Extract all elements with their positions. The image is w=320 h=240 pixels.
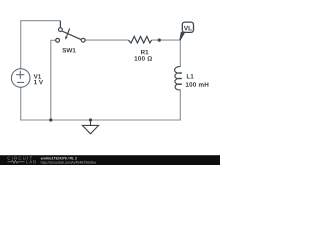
ground <box>82 120 98 134</box>
label 1 V <box>34 80 43 84</box>
wire: V1 top up left side <box>21 21 61 69</box>
wire: inductor bottom to bottom rail <box>179 90 181 120</box>
label V1 <box>34 74 41 78</box>
wire: resistor to right corner <box>152 39 181 41</box>
watermark text line 2 <box>41 161 96 164</box>
wire: bottom rail <box>20 119 181 121</box>
switch arrow head <box>65 37 68 40</box>
inductor L1 <box>175 67 182 90</box>
voltage source V1 <box>11 69 30 88</box>
node junction dot between R1 and corner <box>158 39 161 42</box>
label 100 mH <box>186 82 209 86</box>
flag VL <box>179 22 193 40</box>
resistor R1 <box>128 36 151 43</box>
label L1 <box>187 74 194 78</box>
wire: switch throw2 to middle branch down <box>51 40 56 120</box>
label SW1 <box>62 48 75 52</box>
watermark text line 1 <box>41 157 77 160</box>
node junction dot middle branch on bottom rail <box>49 118 52 121</box>
watermark bar <box>0 155 220 165</box>
watermark logo LAB <box>26 160 35 163</box>
node junction dot ground tap <box>89 118 92 121</box>
watermark logo resistor glyph <box>8 161 25 164</box>
switch SW1 <box>56 21 85 42</box>
label R1 <box>141 50 148 54</box>
watermark logo CIRCUIT <box>8 157 33 160</box>
wire: right side down to inductor <box>179 40 181 67</box>
label 100 Ω <box>135 56 152 60</box>
wire: switch common to resistor <box>85 39 128 41</box>
wire: V1 bottom down to bottom rail <box>20 87 22 120</box>
